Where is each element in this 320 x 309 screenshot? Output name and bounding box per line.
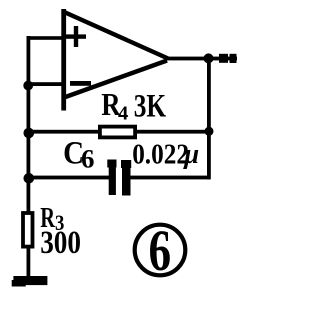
svg-text:6: 6	[149, 220, 172, 284]
svg-text:µ: µ	[183, 138, 199, 170]
svg-text:4: 4	[118, 103, 128, 125]
svg-text:300: 300	[40, 223, 81, 260]
svg-text:0.022: 0.022	[132, 138, 189, 170]
svg-text:3K: 3K	[134, 89, 167, 125]
svg-text:6: 6	[81, 143, 94, 173]
